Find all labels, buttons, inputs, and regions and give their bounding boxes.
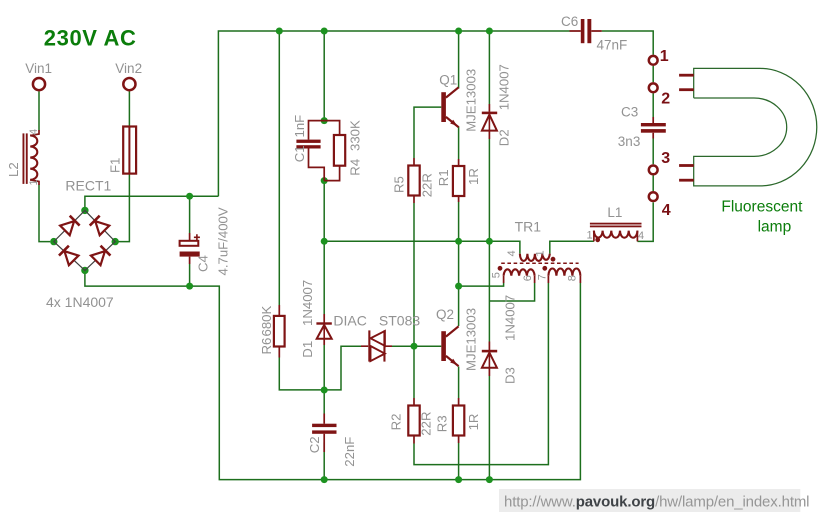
svg-text:TR1: TR1 (515, 219, 542, 235)
node bridge right (112, 238, 119, 245)
svg-text:RECT1: RECT1 (65, 178, 111, 194)
svg-text:22R: 22R (418, 411, 433, 435)
svg-text:22nF: 22nF (342, 437, 357, 467)
node A D1 bottom (321, 387, 328, 394)
svg-text:DIAC: DIAC (333, 313, 366, 329)
capacitor C1 (296, 121, 324, 181)
wire R1 to mid rail to Q2 collector (458, 202, 460, 326)
node mid rail x458 (455, 238, 462, 245)
wire DIAC left lead to node A (324, 346, 361, 390)
wire top rail from left riser to C6 (218, 31, 569, 196)
svg-text:3: 3 (661, 150, 670, 167)
svg-text:http://www.pavouk.org/hw/lamp/: http://www.pavouk.org/hw/lamp/en_index.h… (504, 493, 809, 510)
svg-text:330K: 330K (348, 120, 363, 151)
svg-text:R3: R3 (434, 415, 449, 432)
svg-text:L2: L2 (6, 162, 21, 177)
wire R5 bottom through DIAC node to R2 (413, 203, 415, 398)
resistor R4 (324, 121, 345, 181)
node mid rail x324 (321, 238, 328, 245)
transistor Q1 MJE13003 (441, 87, 458, 127)
resistor R6 (274, 305, 285, 358)
inductor L1 polarity dot (595, 237, 600, 242)
terminal Vin2 (123, 78, 135, 90)
wire R6 bottom to node A (279, 358, 324, 390)
svg-text:Q1: Q1 (439, 73, 457, 88)
diode D1 1N4007 (316, 314, 331, 345)
svg-text:1: 1 (535, 250, 547, 256)
svg-text:Vin1: Vin1 (25, 61, 52, 76)
wire (39, 31, 653, 480)
diode bridge bottom-right 1N4007 (91, 246, 111, 266)
node B DIAC output (411, 343, 418, 350)
svg-text:C1: C1 (292, 145, 307, 162)
svg-text:ST083: ST083 (379, 313, 420, 329)
terminal 1 pad (649, 56, 658, 65)
svg-text:4: 4 (506, 250, 518, 256)
svg-text:4: 4 (638, 230, 644, 242)
svg-text:lamp: lamp (758, 219, 792, 236)
wire bridge plus output y196 (85, 196, 219, 210)
svg-text:D3: D3 (503, 367, 518, 384)
svg-text:C3: C3 (621, 105, 638, 120)
inductor L2 (23, 130, 40, 185)
wire C4 branch (189, 196, 191, 286)
svg-text:1N4007: 1N4007 (496, 64, 511, 110)
svg-text:1R: 1R (466, 168, 481, 185)
transformer TR1 winding 5-6 polarity dot (498, 266, 503, 271)
svg-text:1: 1 (28, 179, 40, 185)
node mid rail x489 (486, 238, 493, 245)
diode bridge top-left 1N4007 (60, 216, 80, 236)
svg-text:D1: D1 (300, 341, 315, 358)
capacitor C2 (312, 414, 336, 453)
node C1/R4 bottom (321, 177, 328, 184)
wire D3 to bottom rail (488, 376, 490, 480)
wire R3 to bottom rail (458, 443, 460, 480)
svg-text:8: 8 (567, 275, 579, 281)
svg-text:R5: R5 (391, 176, 406, 193)
transformer TR1 winding 7-8 polarity dot (542, 266, 547, 271)
wire C6 to terminal 1 (602, 31, 653, 55)
svg-text:1: 1 (660, 48, 669, 65)
svg-text:R6: R6 (259, 338, 274, 355)
wire Q2 emitter to R3 (458, 367, 460, 399)
wire terminal chain and C3 (652, 66, 654, 191)
svg-text:47nF: 47nF (597, 38, 628, 53)
node bridge bottom (81, 267, 88, 274)
terminal Vin1 (33, 78, 45, 90)
capacitor C3 (641, 117, 666, 139)
fluorescent lamp tube outline (694, 68, 817, 185)
wire C2 to bottom rail (323, 443, 325, 480)
fuse F1 (123, 127, 136, 174)
node top rail x279 (276, 28, 283, 35)
node C4 bottom (186, 283, 193, 290)
node bridge top (81, 207, 88, 214)
transformer TR1 primary polarity dot (551, 257, 556, 262)
lamp filament pin top-2 (679, 88, 694, 91)
svg-text:6: 6 (522, 275, 534, 281)
svg-text:1N4007: 1N4007 (300, 280, 315, 326)
diac ST083 (361, 330, 392, 361)
node bridge left (50, 238, 57, 245)
lamp filament pin top-1 (679, 74, 694, 77)
capacitor C4 electrolytic (180, 233, 200, 264)
svg-text:1: 1 (587, 230, 593, 242)
node top rail Q1 collector (455, 28, 462, 35)
resistor R5 (408, 158, 419, 203)
wire D1 to C2 (323, 345, 325, 414)
svg-text:230V AC: 230V AC (44, 25, 137, 50)
svg-text:2: 2 (661, 91, 670, 108)
wire Q2 base (414, 345, 441, 347)
wire bottom rail (85, 270, 581, 479)
diode D2 1N4007 (482, 104, 497, 139)
svg-text:Vin2: Vin2 (115, 61, 142, 76)
wire TR1 pin 6 to D2 column (489, 283, 534, 301)
diode bridge top-right 1N4007 (90, 216, 110, 236)
wire mid rail y241 (324, 202, 653, 253)
svg-text:C4: C4 (195, 255, 210, 272)
transformer TR1 core dashed (501, 262, 578, 264)
transformer TR1 winding pins 7-8 (548, 269, 580, 283)
svg-text:680K: 680K (259, 305, 274, 336)
url status bar (499, 489, 800, 512)
svg-text:1nF: 1nF (292, 115, 307, 138)
node C4 top (186, 193, 193, 200)
svg-text:4: 4 (662, 202, 671, 219)
node top rail x324 (321, 28, 328, 35)
resistor R2 (408, 398, 419, 444)
svg-text:4: 4 (28, 129, 40, 135)
wire Vin1 to L2 to bridge left (39, 92, 50, 242)
svg-text:R1: R1 (436, 169, 451, 186)
svg-text:4x 1N4007: 4x 1N4007 (46, 294, 114, 310)
wire DIAC right to node B (392, 345, 414, 347)
lamp filament pin bottom-1 (679, 164, 694, 167)
svg-text:L1: L1 (607, 205, 622, 220)
svg-text:Q2: Q2 (436, 307, 454, 322)
svg-text:MJE13003: MJE13003 (463, 69, 478, 132)
terminal 3 pad (649, 166, 658, 175)
svg-text:C6: C6 (561, 14, 578, 29)
capacitor C6 (570, 19, 602, 43)
node bottom rail C2 (321, 476, 328, 483)
svg-text:22R: 22R (420, 173, 435, 197)
diode D3 1N4007 (482, 342, 497, 377)
wire column x324 top rail to C1/R4 top (323, 31, 325, 121)
node bottom rail D3 (486, 476, 493, 483)
wire column x489 top rail to D2 (488, 31, 490, 104)
node bottom rail R3 (455, 476, 462, 483)
wire Q1 base to R5 (414, 107, 441, 158)
wire R2 bottom to TR1 pin 7 (414, 283, 548, 465)
svg-text:F1: F1 (108, 158, 123, 173)
svg-text:Fluorescent: Fluorescent (721, 199, 803, 216)
wire C1/R4 bottom to D1 (323, 181, 325, 314)
diode bridge bottom-left 1N4007 (59, 246, 79, 266)
wire D2 to D3 (488, 139, 490, 342)
svg-text:1N4007: 1N4007 (503, 295, 518, 341)
svg-text:C2: C2 (307, 436, 322, 453)
resistor R1 (453, 159, 464, 202)
transformer TR1 winding pins 5-6 (504, 269, 535, 283)
node C1/R4 top (321, 117, 328, 124)
svg-text:7: 7 (537, 274, 549, 280)
lamp filament pin bottom-2 (679, 179, 694, 182)
node emitter column winding5 (455, 283, 462, 290)
rectifier RECT1 diamond frame (54, 210, 115, 270)
transformer TR1 primary winding pins 4-1 (520, 254, 550, 261)
terminal 2 pad (649, 83, 658, 92)
node top rail D2 (486, 28, 493, 35)
svg-text:5: 5 (491, 272, 503, 278)
wire column x458 Q1 collector to top rail (458, 31, 460, 89)
wire Q1 emitter to R1 (458, 127, 460, 160)
svg-text:R2: R2 (389, 414, 404, 431)
svg-text:1R: 1R (466, 414, 481, 431)
svg-text:4.7uF/400V: 4.7uF/400V (216, 207, 231, 275)
svg-text:3n3: 3n3 (618, 134, 641, 149)
terminal 4 pad (649, 192, 658, 201)
wire Vin2 to F1 to bridge right (116, 92, 129, 242)
wire column x279 top rail to R6 (278, 31, 280, 305)
resistor R3 (453, 398, 464, 443)
inductor L1 (590, 223, 642, 242)
svg-text:D2: D2 (496, 129, 511, 146)
svg-text:MJE13003: MJE13003 (463, 308, 478, 371)
transistor Q2 MJE13003 (441, 326, 458, 366)
wire TR1 pin 5 to emitter column (459, 283, 504, 286)
svg-text:R4: R4 (348, 159, 363, 176)
